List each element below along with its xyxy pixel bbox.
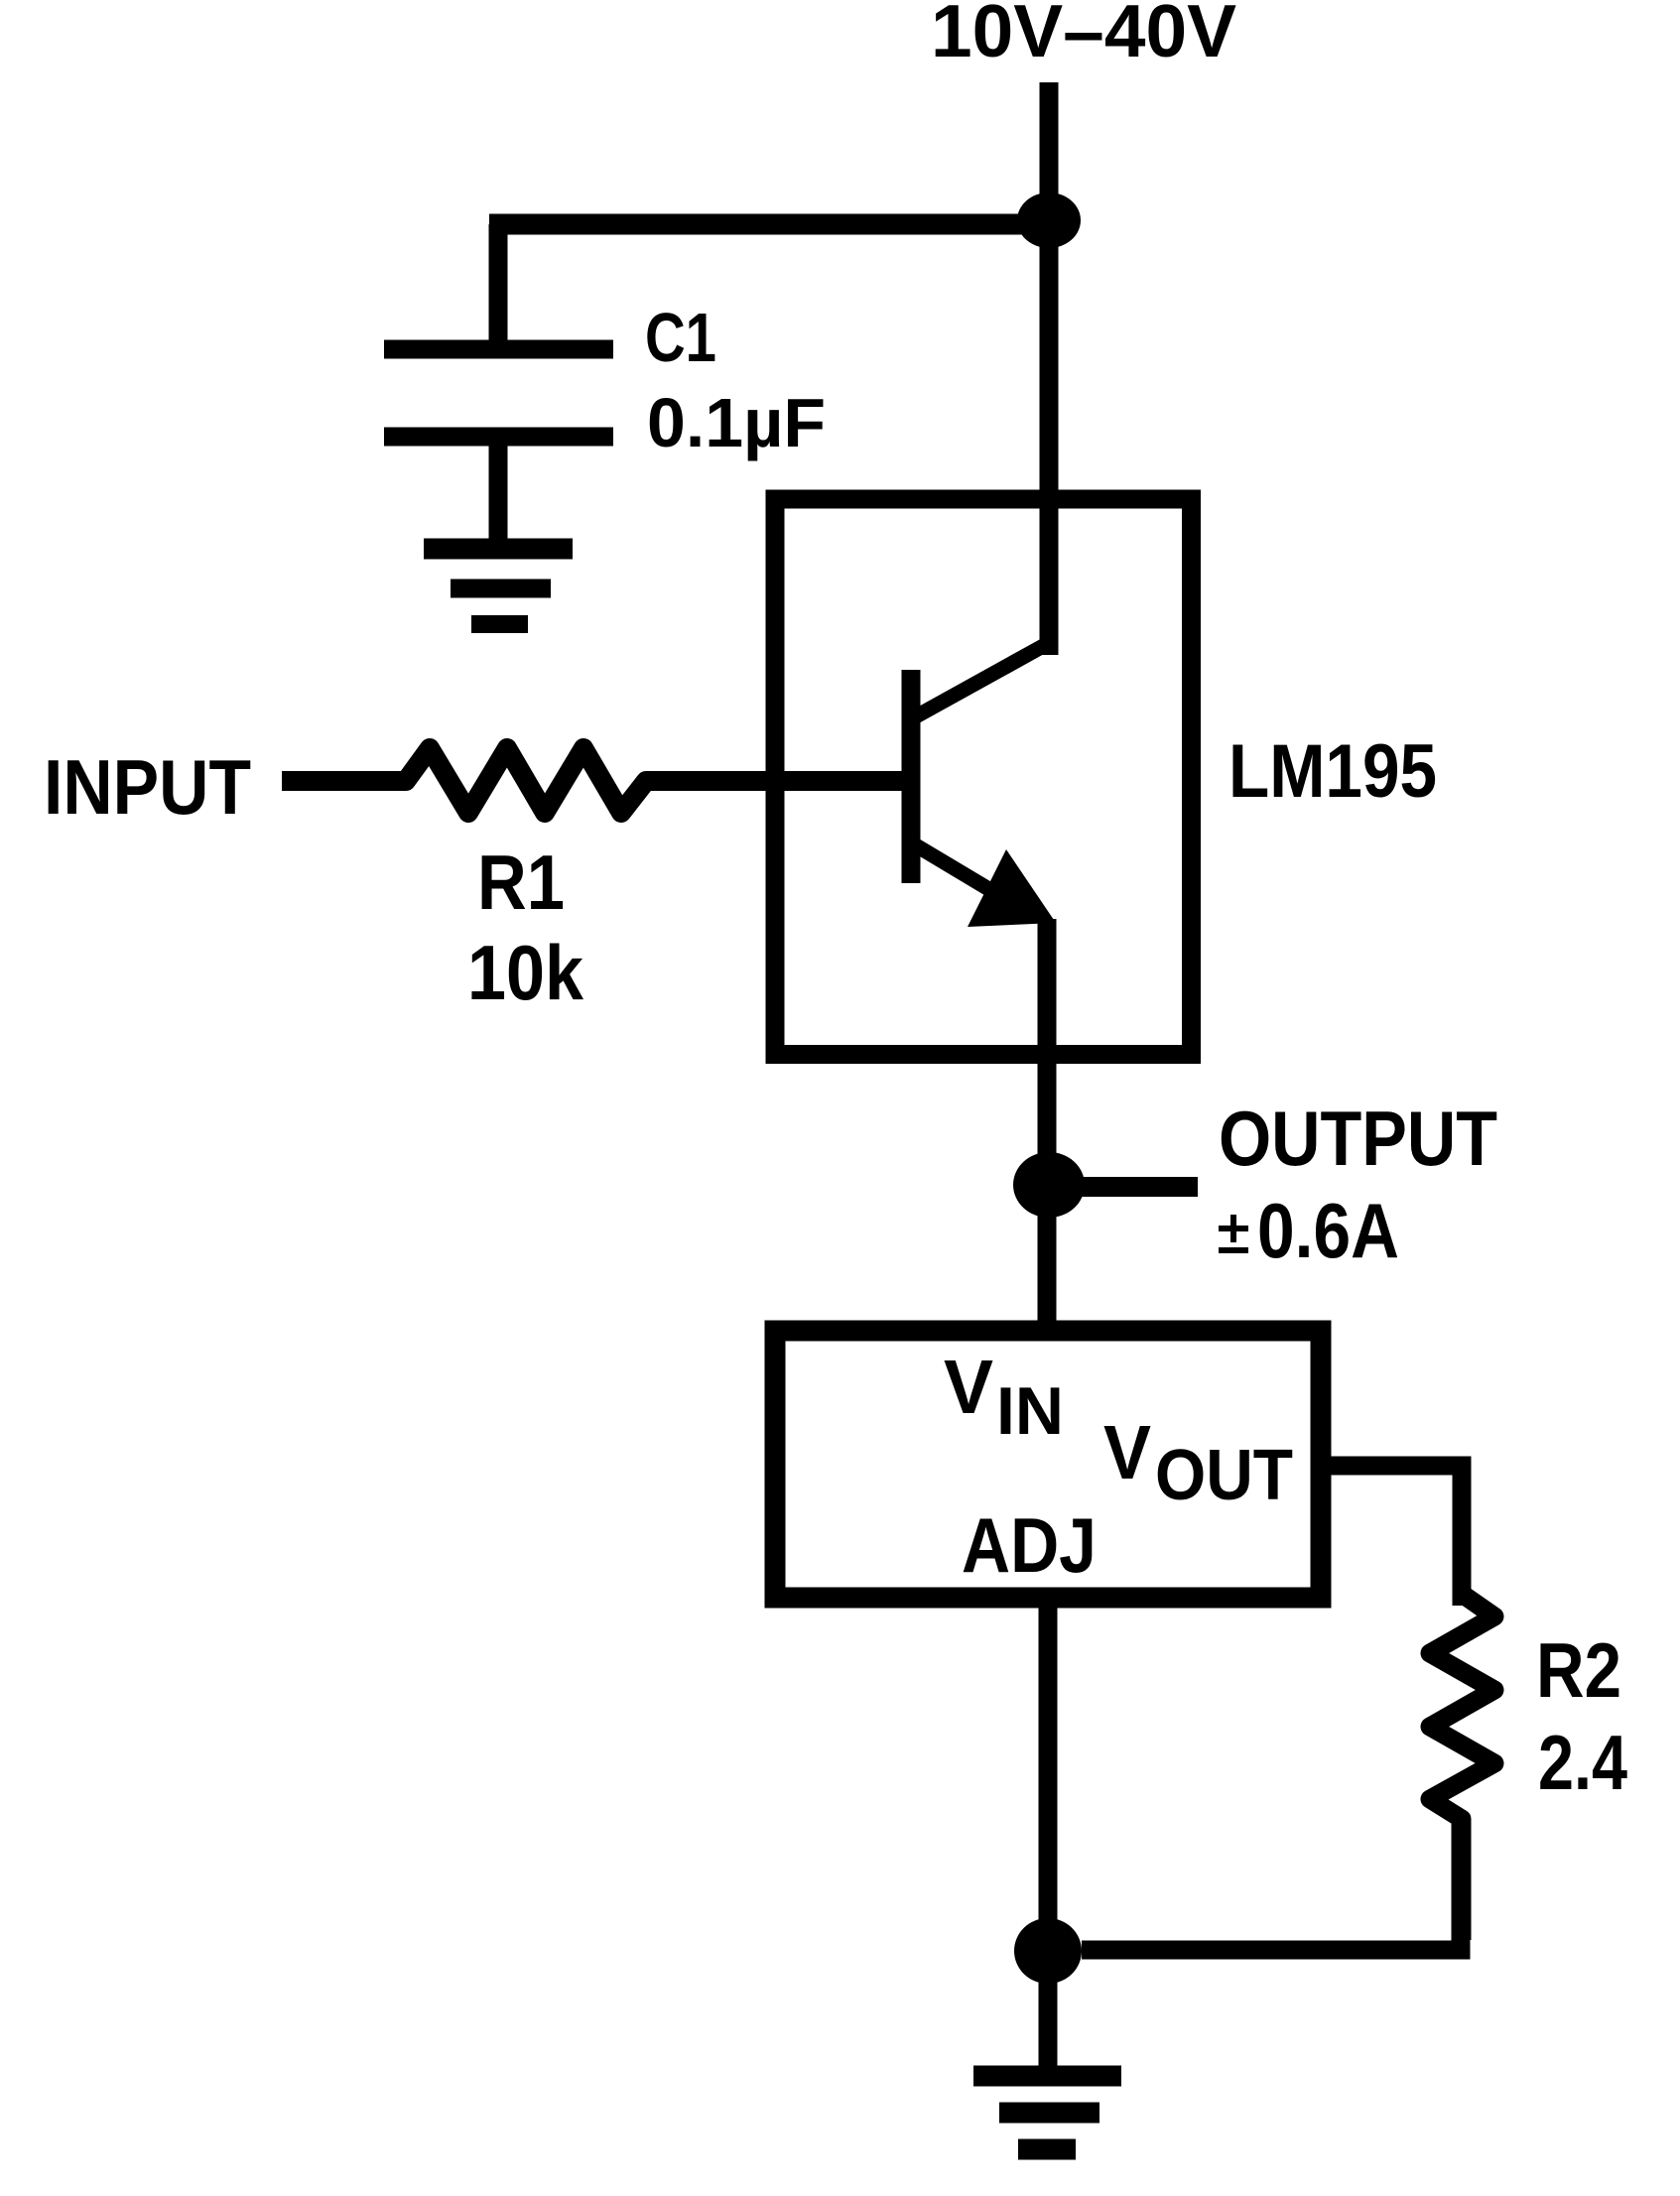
svg-text:0.1µF: 0.1µF	[647, 384, 826, 461]
node junction dot adj/R2	[1014, 1918, 1082, 1984]
resistor R2	[1430, 1594, 1494, 1940]
wire supply to C1 horizontal	[489, 214, 1049, 235]
svg-text:OUTPUT: OUTPUT	[1219, 1095, 1497, 1182]
svg-text:LM195: LM195	[1228, 729, 1437, 814]
capacitor C1	[384, 349, 613, 437]
transistor Q1 emitter arrowhead	[968, 849, 1056, 927]
wire Vout to R2	[1321, 1466, 1462, 1606]
label +-0.6A	[1219, 1215, 1248, 1250]
svg-text:0.6A: 0.6A	[1257, 1187, 1399, 1274]
svg-text:R2: R2	[1536, 1626, 1621, 1714]
svg-text:10V–40V: 10V–40V	[931, 0, 1236, 72]
regulator U2 box	[775, 1331, 1321, 1598]
svg-text:C1: C1	[645, 299, 716, 376]
ground (bottom)	[973, 2076, 1121, 2149]
wire C1 bottom lead	[489, 437, 508, 549]
svg-text:ADJ: ADJ	[962, 1501, 1097, 1589]
resistor R1 with input wire and base wire	[282, 748, 904, 813]
svg-text:OUT: OUT	[1155, 1436, 1293, 1515]
node junction dot output	[1013, 1152, 1085, 1218]
wire emitter to regulator Vin	[1038, 919, 1057, 1331]
svg-text:10k: 10k	[467, 929, 584, 1016]
svg-text:V: V	[944, 1345, 993, 1430]
svg-text:INPUT: INPUT	[44, 743, 251, 831]
transistor Q1 emitter lead	[916, 845, 1022, 909]
svg-text:IN: IN	[996, 1373, 1064, 1449]
wire supply vertical (top rail into collector)	[1040, 82, 1059, 655]
transistor Q1 collector lead	[916, 645, 1045, 716]
ground (C1)	[424, 549, 573, 624]
transistor Q1 base bar	[902, 670, 921, 883]
wire C1 top lead	[489, 224, 508, 349]
wire R2 bottom to ADJ node	[1082, 1819, 1461, 1950]
svg-text:R1: R1	[477, 839, 565, 926]
svg-text:2.4: 2.4	[1538, 1719, 1627, 1806]
svg-text:V: V	[1103, 1410, 1151, 1495]
wire output stub	[1049, 1177, 1198, 1197]
node junction dot supply	[1017, 193, 1081, 248]
wire ADJ to ground	[1039, 1608, 1058, 2076]
transistor U1 box outline LM195	[775, 499, 1192, 1055]
